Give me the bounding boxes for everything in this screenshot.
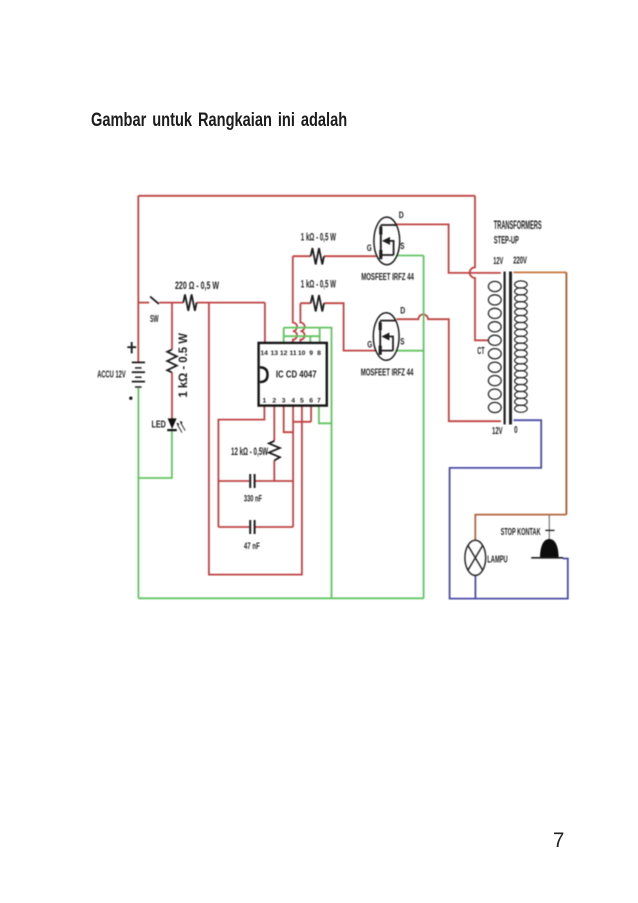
svg-text:TRANSFORMERS: TRANSFORMERS [494, 218, 542, 232]
wire: IC ground bus upper horizontal and long right vertical [284, 328, 332, 599]
svg-text:330 nF: 330 nF [244, 493, 262, 504]
resistor R2 1k vertical zigzag (LED branch) [167, 350, 177, 373]
svg-text:12 kΩ - 0,5W: 12 kΩ - 0,5W [231, 446, 268, 458]
wire: R5 bottom to C1 line [273, 461, 275, 482]
resistor R4 1k lower zigzag [311, 295, 324, 311]
wire: lamp bottom to blue rail [474, 576, 476, 599]
transformer T1 core [504, 272, 506, 425]
resistor R1 220 ohm zigzag [183, 294, 196, 310]
wire: green bottom ground rail [138, 597, 423, 599]
wire: rail segment R1 to IC pin14 drop [197, 302, 265, 304]
svg-text:47 nF: 47 nF [244, 541, 260, 552]
svg-text:S: S [400, 241, 404, 251]
switch SW lever and contact dot [150, 297, 159, 304]
svg-text:G: G [367, 339, 372, 349]
svg-text:IC CD 4047: IC CD 4047 [276, 368, 317, 380]
svg-text:G: G [367, 243, 372, 253]
wire: transformer secondary 220V terminal [514, 271, 567, 273]
svg-text:1 kΩ - 0.5 W: 1 kΩ - 0.5 W [176, 332, 190, 397]
svg-text:1: 1 [263, 397, 267, 404]
wire: left vertical battery + riser [137, 196, 139, 363]
wire: C2 47nF node line [218, 526, 293, 528]
wire: transformer secondary 0 terminal blue loop to lamp circuit [450, 420, 568, 598]
svg-text:220 Ω - 0,5 W: 220 Ω - 0,5 W [175, 280, 219, 292]
wire: battery negative green down-left side to bottom rail [137, 388, 139, 598]
wire: IC pin 6 stub [310, 406, 312, 422]
svg-text:SW: SW [150, 313, 159, 325]
wire: rail segment switch to R1 [159, 302, 183, 304]
wire: transformer CT branch from top rail with hop [470, 196, 490, 340]
lamp symbol [465, 540, 486, 575]
wire: R3 net to MOSFET Q1 gate [293, 255, 377, 257]
svg-text:10: 10 [298, 350, 306, 357]
svg-text:12: 12 [280, 350, 288, 357]
wire: brown right vertical [565, 272, 567, 514]
svg-text:2: 2 [272, 397, 276, 404]
wire: IC pin 9 ground stub [309, 336, 311, 343]
wire: Q1 drain to transformer primary top [396, 224, 501, 273]
battery B1 ACCU 12V plates [132, 362, 145, 387]
wire: outer red loop rail to pin 5 [209, 303, 302, 575]
svg-text:ACCU 12V: ACCU 12V [97, 368, 126, 380]
svg-text:5: 5 [300, 397, 304, 404]
wire: green source vertical to ground rail [423, 256, 425, 599]
wire: rail segment battery to switch [138, 302, 149, 304]
wire: IC pin 7 ground jog [319, 406, 332, 423]
battery minus dot [129, 397, 132, 400]
wire: IC pin 2 to R5 top [273, 406, 275, 441]
IC notch [260, 367, 268, 382]
wire: brown horizontal to lamp top [475, 515, 566, 541]
svg-text:11: 11 [290, 350, 297, 357]
svg-text:12V: 12V [492, 426, 503, 437]
svg-text:MOSFEET IRFZ 44: MOSFEET IRFZ 44 [361, 271, 414, 283]
title text [91, 111, 347, 131]
svg-text:D: D [399, 210, 404, 220]
battery plus sign [127, 342, 136, 353]
transformer T1 secondary coil loops [515, 281, 528, 412]
wire: R4 left drop to IC pin 10 with crossover hops [300, 303, 304, 343]
LED D1 symbol [167, 418, 182, 431]
svg-text:D: D [400, 306, 405, 316]
IC U1 CD4047 body [259, 343, 327, 406]
svg-text:14: 14 [260, 350, 268, 357]
wire: pin4-pin6 link [293, 421, 311, 423]
wire: IC pin 12 ground stub [283, 328, 285, 344]
svg-text:220V: 220V [513, 255, 527, 266]
wire: stop kontak drop [548, 515, 550, 540]
wire: LED branch lower segment [171, 373, 173, 419]
svg-text:13: 13 [271, 350, 279, 357]
wire: IC pin 4 vertical down to C2 line [292, 406, 294, 527]
svg-text:9: 9 [309, 350, 313, 357]
svg-text:4: 4 [291, 397, 295, 404]
svg-text:1 kΩ - 0,5 W: 1 kΩ - 0,5 W [301, 231, 337, 243]
svg-text:STEP-UP: STEP-UP [494, 234, 519, 246]
svg-text:MOSFEET IRFZ 44: MOSFEET IRFZ 44 [361, 367, 414, 379]
wire: IC pin 8 ground stub [319, 328, 321, 344]
svg-text:S: S [400, 337, 404, 347]
wire: IC pin 1 to capacitor box left edge [218, 406, 264, 527]
stop kontak contact tick [545, 529, 554, 531]
svg-text:LAMPU: LAMPU [487, 554, 507, 566]
wire: Q2 drain to transformer primary bottom with hop over green [397, 314, 502, 421]
wire: R3 left drop to IC pin 11 with crossover hops [293, 256, 297, 343]
wire: IC pin 3 jog [284, 406, 293, 432]
svg-text:0: 0 [514, 425, 518, 436]
svg-text:8: 8 [317, 350, 321, 357]
page number [553, 830, 564, 852]
IC pin numbers top row [260, 350, 321, 357]
wire: green branch to LED cathode [138, 431, 172, 478]
wire: IC pin 14 supply drop [264, 303, 266, 344]
svg-text:CT: CT [477, 346, 484, 357]
resistor R3 1k upper zigzag [311, 248, 324, 264]
capacitor C2 47nF plates [250, 520, 254, 534]
svg-text:12V: 12V [493, 256, 503, 267]
svg-text:6: 6 [309, 397, 313, 404]
IC pin numbers bottom row [263, 397, 322, 404]
wire: LED branch upper segment [171, 303, 173, 350]
wire: top positive rail from battery + to transformer CT branch [138, 195, 475, 197]
stop kontak plug dome [540, 539, 559, 558]
capacitor C1 330nF plates [250, 474, 254, 488]
svg-text:STOP KONTAK: STOP KONTAK [501, 526, 541, 538]
wire: R4 net to MOSFET Q2 gate [300, 303, 376, 350]
LED emission arrow lines [178, 423, 186, 433]
transformer T1 primary coil loops [488, 281, 501, 412]
svg-text:7: 7 [317, 397, 321, 404]
wire: Q2 source green [397, 350, 424, 352]
resistor R5 12k vertical zigzag [269, 441, 280, 461]
svg-text:LED: LED [152, 419, 167, 431]
MOSFET Q1 [374, 217, 400, 265]
wire: IC ground bus lower horizontal [284, 335, 320, 337]
stop kontak base line [531, 557, 563, 559]
svg-text:3: 3 [282, 397, 286, 404]
wire: C1 330nF node line [218, 480, 293, 482]
wire: Q1 source green [397, 255, 424, 257]
MOSFET Q2 [373, 313, 399, 361]
svg-text:1 kΩ - 0,5 W: 1 kΩ - 0,5 W [301, 279, 337, 291]
